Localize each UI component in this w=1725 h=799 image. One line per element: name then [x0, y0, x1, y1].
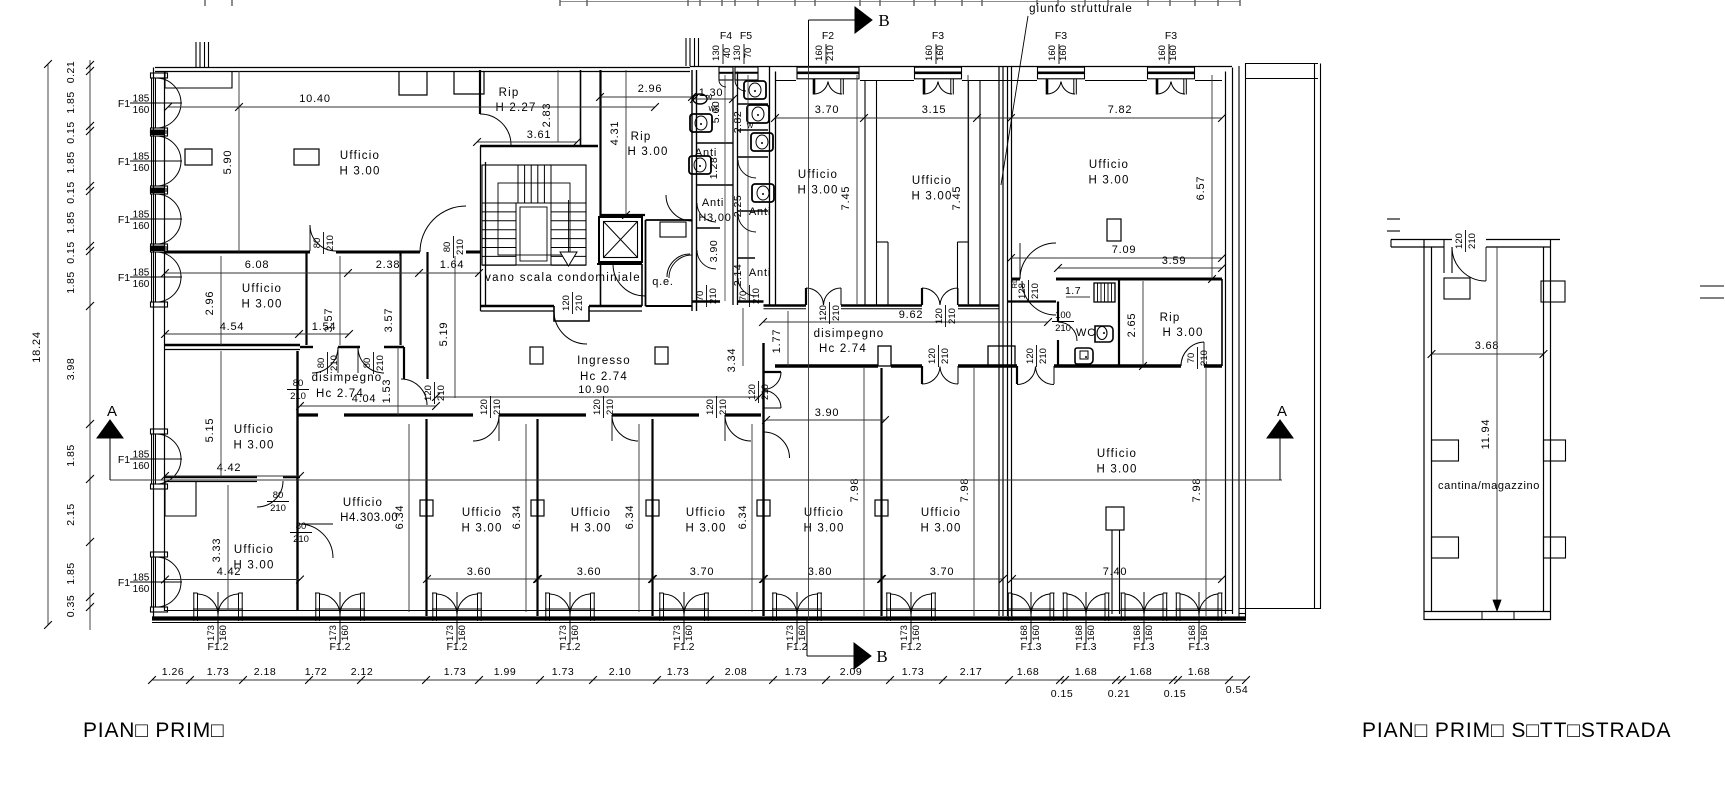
- svg-text:5.15: 5.15: [204, 418, 216, 443]
- wall anti-right partition 1: [738, 103, 768, 105]
- dim 7.98 at x=974: [973, 368, 975, 616]
- wall qe north: [646, 219, 693, 221]
- dim 3.57 a: [339, 256, 341, 345]
- svg-text:A: A: [107, 403, 117, 420]
- svg-text:H 3.00: H 3.00: [1088, 175, 1129, 187]
- svg-text:3.34: 3.34: [726, 348, 738, 373]
- wall room 1.64 right: [426, 252, 428, 345]
- svg-text:160: 160: [133, 163, 150, 174]
- svg-text:1.68: 1.68: [1130, 666, 1152, 678]
- door office 3.60 b: [612, 415, 638, 441]
- wall bottom interior face: [152, 616, 1246, 620]
- wall room7.82 bottom b: [1056, 278, 1222, 281]
- wall rip 3.00 west: [599, 70, 601, 217]
- dim 6.34 at x=752: [751, 424, 753, 612]
- pillar corridor x=988: [988, 346, 1015, 366]
- svg-text:7.45: 7.45: [840, 186, 852, 211]
- dim door 120/210: [592, 396, 616, 418]
- window F1.2 #3: [432, 593, 434, 621]
- svg-text:Anti: Anti: [749, 206, 771, 218]
- svg-text:disimpegno: disimpegno: [814, 328, 885, 340]
- svg-text:160: 160: [814, 45, 825, 61]
- svg-text:0.15: 0.15: [1051, 688, 1073, 700]
- wall corridor top a: [764, 304, 807, 307]
- svg-text:160: 160: [1144, 625, 1155, 641]
- wall anti bottom b: [738, 300, 764, 302]
- cantina wall left: [1423, 239, 1425, 620]
- window F5: [735, 67, 758, 80]
- dim 3.34: [742, 308, 744, 366]
- svg-text:H 3.00: H 3.00: [1096, 464, 1137, 476]
- door office 3.60 a: [473, 415, 499, 441]
- svg-text:160: 160: [133, 105, 150, 116]
- svg-text:Ufficio: Ufficio: [921, 507, 961, 519]
- broken edge mark left: [1387, 218, 1400, 220]
- svg-text:1.73: 1.73: [552, 666, 574, 678]
- svg-text:173: 173: [445, 625, 456, 641]
- svg-text:0.15: 0.15: [65, 181, 77, 203]
- svg-text:160: 160: [1157, 45, 1168, 61]
- svg-text:Ufficio: Ufficio: [343, 497, 383, 509]
- svg-text:160: 160: [133, 279, 150, 290]
- svg-text:F1.3: F1.3: [1188, 641, 1209, 653]
- svg-text:F2: F2: [822, 30, 834, 42]
- sink wc right: [1075, 348, 1093, 364]
- dim 7.45 a: [856, 75, 858, 305]
- door double office 3.70 lower: [921, 366, 923, 384]
- cantina pilaster right 2: [1544, 537, 1566, 558]
- wall corridor bottom c: [958, 364, 1017, 367]
- wall stair west: [480, 146, 482, 311]
- svg-text:Rip: Rip: [1160, 312, 1181, 324]
- wall under office 10.40 (right part): [466, 251, 481, 254]
- svg-text:160: 160: [1047, 45, 1058, 61]
- wall partition office1/2: [425, 419, 427, 616]
- svg-text:130: 130: [732, 45, 743, 61]
- svg-text:160: 160: [924, 45, 935, 61]
- door vano scala main: [554, 311, 587, 344]
- window F1 #2: [151, 131, 168, 136]
- section line A-A: [110, 479, 1282, 481]
- svg-text:q.e.: q.e.: [652, 276, 674, 288]
- wall between offices 5.15 and 3.33: [165, 476, 258, 478]
- dim 1.77: [787, 311, 789, 366]
- svg-text:H 2.27: H 2.27: [495, 102, 536, 114]
- pillar room 7.82: [1107, 219, 1121, 241]
- wall partition 3.70/3.15: [864, 81, 866, 305]
- wall under rip 3.00: [601, 214, 646, 216]
- window F1.2 #2: [315, 593, 317, 621]
- svg-text:H 3.00: H 3.00: [803, 523, 844, 535]
- wall corridor bottom d: [1054, 364, 1181, 367]
- door anti-right 1: [738, 160, 756, 178]
- label window F1.2 #6: [785, 625, 808, 641]
- svg-text:160: 160: [684, 625, 695, 641]
- dim door 120/210: [561, 292, 585, 314]
- svg-text:0.54: 0.54: [1226, 684, 1248, 696]
- svg-text:3.70: 3.70: [690, 566, 715, 578]
- svg-text:120: 120: [934, 308, 945, 324]
- svg-text:0.15: 0.15: [65, 121, 77, 143]
- dim 2.96 top: [600, 96, 692, 98]
- window F4: [719, 67, 733, 80]
- svg-text:2.65: 2.65: [1126, 313, 1138, 338]
- dim 1.30: [694, 98, 733, 100]
- dim 3.70 office bottom: [653, 578, 763, 580]
- svg-text:H 3.00: H 3.00: [570, 523, 611, 535]
- door office 2.96 upper: [310, 225, 336, 251]
- svg-text:B: B: [876, 647, 887, 666]
- window F1 #4: [151, 247, 168, 252]
- svg-text:5.19: 5.19: [438, 322, 450, 347]
- svg-text:120: 120: [479, 399, 490, 415]
- dim door 70/210: [1186, 347, 1210, 369]
- door double office 3.70: [805, 288, 807, 305]
- dim 2.65: [1142, 281, 1144, 366]
- svg-text:Ufficio: Ufficio: [234, 424, 274, 436]
- svg-text:Ufficio: Ufficio: [234, 544, 274, 556]
- svg-text:210: 210: [831, 305, 842, 321]
- section marker A right: [1267, 420, 1293, 438]
- svg-text:1.7: 1.7: [1065, 285, 1081, 297]
- svg-text:H3.00: H3.00: [698, 212, 731, 224]
- svg-text:10.90: 10.90: [578, 384, 610, 396]
- dim 6.34 at x=639: [638, 424, 640, 612]
- wall neighbour right: [1314, 64, 1316, 610]
- window F1 #3: [151, 189, 168, 194]
- svg-text:210: 210: [718, 399, 729, 415]
- wall corridor top c: [958, 304, 999, 307]
- door wc lobby: [1022, 281, 1056, 315]
- svg-text:7.98: 7.98: [849, 478, 861, 503]
- svg-text:4.31: 4.31: [609, 121, 621, 146]
- dim door 80/210: [316, 352, 340, 374]
- svg-text:cantina/magazzino: cantina/magazzino: [1438, 480, 1540, 492]
- svg-text:2.12: 2.12: [351, 666, 373, 678]
- cantina wall top right: [1486, 239, 1560, 241]
- door double office 3.15: [921, 288, 923, 305]
- wall anti-right partition 4: [738, 210, 768, 212]
- dim door 120/210: [934, 305, 958, 327]
- pillar on corridor bottom wall: [878, 346, 891, 366]
- wall disimpegno-left top a: [300, 346, 313, 348]
- dim 3.61: [477, 141, 577, 143]
- svg-text:F1: F1: [118, 272, 130, 284]
- wall anti bottom a: [692, 300, 720, 302]
- svg-text:120: 120: [818, 305, 829, 321]
- wall left of office 3.70 x=775: [775, 72, 777, 306]
- chimney stub mid: [685, 38, 687, 66]
- svg-text:F5: F5: [740, 30, 752, 42]
- dim 3.68: [1432, 353, 1544, 355]
- dim 2.83: [557, 70, 559, 142]
- dim 3.80 office bottom: [764, 578, 881, 580]
- wall room7.82 bottom a: [1012, 278, 1021, 281]
- jog top-left corner: [165, 72, 232, 89]
- svg-text:160: 160: [1199, 625, 1210, 641]
- svg-text:3.57: 3.57: [383, 308, 395, 333]
- svg-text:3.15: 3.15: [922, 104, 947, 116]
- svg-text:160: 160: [570, 625, 581, 641]
- dim line anti-left: [724, 75, 726, 301]
- svg-text:18.24: 18.24: [31, 331, 43, 363]
- svg-text:210: 210: [1055, 323, 1071, 334]
- svg-text:210: 210: [574, 295, 585, 311]
- wall anti-left partition 1: [697, 142, 733, 144]
- cantina wall right: [1543, 247, 1545, 611]
- svg-text:2.83: 2.83: [541, 103, 553, 128]
- svg-text:F1.2: F1.2: [207, 641, 228, 653]
- wall qe south: [646, 305, 693, 307]
- svg-text:w: w: [746, 120, 754, 130]
- dim 3.70/3.15/7.82: [775, 117, 1222, 119]
- pilaster partition 1: [420, 500, 433, 516]
- svg-text:160: 160: [1058, 45, 1069, 61]
- svg-text:2.09: 2.09: [840, 666, 862, 678]
- door room 1.64: [420, 206, 466, 252]
- svg-text:80: 80: [312, 238, 323, 249]
- svg-text:1.85: 1.85: [65, 444, 77, 466]
- svg-text:Ufficio: Ufficio: [1097, 448, 1137, 460]
- svg-text:1.54: 1.54: [312, 321, 337, 333]
- svg-text:173: 173: [558, 625, 569, 641]
- door anti-right 2: [738, 214, 756, 232]
- svg-text:3.61: 3.61: [527, 129, 552, 141]
- wall disimpegno-left top b: [338, 346, 360, 348]
- dim 4.42 a: [165, 475, 300, 477]
- dim 6.34 at x=526: [525, 424, 527, 612]
- svg-text:7.45: 7.45: [951, 186, 963, 211]
- svg-text:1.77: 1.77: [771, 329, 783, 354]
- svg-text:70: 70: [738, 291, 749, 302]
- window F1 #5: [151, 429, 168, 434]
- svg-text:Ufficio: Ufficio: [798, 169, 838, 181]
- niche 2 below top wall: [454, 72, 484, 95]
- svg-text:2.10: 2.10: [609, 666, 631, 678]
- svg-text:3.80: 3.80: [808, 566, 833, 578]
- dim chain left: [89, 60, 91, 630]
- wall jog disimpegno-left: [403, 347, 405, 379]
- svg-text:210: 210: [1030, 283, 1041, 299]
- dim 3.90 office: [766, 419, 885, 421]
- svg-text:70: 70: [695, 291, 706, 302]
- section line B-B: [808, 66, 810, 619]
- svg-text:160: 160: [133, 584, 150, 595]
- wall jog office 3.33: [165, 482, 196, 517]
- svg-text:173: 173: [899, 625, 910, 641]
- svg-text:F3: F3: [932, 30, 944, 42]
- svg-text:0.15: 0.15: [65, 241, 77, 263]
- svg-text:80: 80: [362, 358, 373, 369]
- door anti-right 3: [738, 278, 756, 296]
- wall wc lobby: [1007, 300, 1056, 302]
- pilaster partition 3: [646, 500, 659, 516]
- label window F1.3 #4: [1187, 625, 1210, 641]
- svg-text:F1: F1: [118, 156, 130, 168]
- svg-text:80: 80: [442, 242, 453, 253]
- door anti access: [669, 255, 692, 278]
- svg-text:4.04: 4.04: [352, 393, 377, 405]
- section marker B top: [808, 20, 810, 66]
- svg-text:210: 210: [270, 503, 286, 514]
- svg-text:210: 210: [375, 355, 386, 371]
- svg-text:disimpegno: disimpegno: [312, 372, 383, 384]
- svg-text:1.85: 1.85: [65, 211, 77, 233]
- dim door 70/210: [738, 285, 762, 307]
- door rip right: [1181, 342, 1204, 366]
- svg-text:173: 173: [785, 625, 796, 641]
- door rip 2.27: [480, 114, 511, 145]
- radiator heater wc: [1094, 283, 1115, 302]
- svg-text:6.08: 6.08: [245, 259, 270, 271]
- wall offices row top d: [612, 413, 699, 416]
- door offices 5.15/3.33: [257, 481, 283, 507]
- cantina bottom hatch: [1482, 612, 1514, 620]
- svg-text:F1: F1: [118, 577, 130, 589]
- svg-text:5.90: 5.90: [222, 150, 234, 175]
- svg-text:H 3.00: H 3.00: [233, 440, 274, 452]
- dim cantina door 120/210: [1454, 230, 1478, 252]
- svg-text:PIAN□ PRIM□ S□TT□STRADA: PIAN□ PRIM□ S□TT□STRADA: [1362, 719, 1671, 742]
- wall elevator south: [597, 263, 642, 265]
- svg-text:160: 160: [218, 625, 229, 641]
- svg-text:0.35: 0.35: [65, 595, 77, 617]
- svg-text:210: 210: [329, 355, 340, 371]
- label window F1.2 #7: [899, 625, 922, 641]
- dim 11.94: [1496, 247, 1498, 611]
- dim door 128/210: [1017, 280, 1041, 302]
- label window F1.2 #1: [206, 625, 229, 641]
- svg-text:2.96: 2.96: [638, 83, 663, 95]
- svg-text:120: 120: [705, 399, 716, 415]
- pilaster partition 2: [531, 500, 544, 516]
- wall anti strip east x=770: [769, 66, 771, 305]
- dim 7.40 office bottom: [1012, 578, 1222, 580]
- svg-text:3.59: 3.59: [1162, 255, 1187, 267]
- svg-text:120: 120: [1025, 348, 1036, 364]
- svg-text:giunto strutturale: giunto strutturale: [1029, 3, 1133, 15]
- svg-text:Anti: Anti: [702, 197, 724, 209]
- svg-text:1.99: 1.99: [494, 666, 516, 678]
- wall top exterior left: [155, 67, 690, 69]
- toilet anti-right 3: [751, 133, 773, 151]
- window F1 #1: [151, 73, 168, 78]
- wall under office 10.40 (left part): [165, 251, 311, 254]
- cantina pilaster right 1: [1544, 440, 1566, 461]
- svg-text:3.90: 3.90: [815, 407, 840, 419]
- window F1.2 #1: [193, 593, 195, 621]
- wall partition office2/3: [536, 419, 538, 616]
- toilet anti-right 4: [752, 184, 774, 202]
- svg-text:210: 210: [708, 288, 719, 304]
- svg-text:1.73: 1.73: [902, 666, 924, 678]
- dim door 120/210: [479, 396, 503, 418]
- svg-text:80: 80: [293, 378, 304, 389]
- toilet anti-right 2: [747, 105, 769, 123]
- svg-text:Ufficio: Ufficio: [571, 507, 611, 519]
- svg-text:0.15: 0.15: [1164, 688, 1186, 700]
- door rip 3.00: [666, 195, 692, 221]
- svg-text:173: 173: [672, 625, 683, 641]
- svg-text:F1: F1: [118, 214, 130, 226]
- svg-text:120: 120: [1454, 233, 1465, 249]
- wall stair north / rip227 south: [480, 145, 598, 148]
- svg-text:168: 168: [1019, 625, 1030, 641]
- pillar ingresso A: [530, 347, 543, 364]
- wall right exterior: [1225, 72, 1227, 615]
- dim 5.19: [454, 256, 456, 398]
- svg-text:7.40: 7.40: [1103, 566, 1128, 578]
- svg-text:120: 120: [423, 385, 434, 401]
- svg-text:1.73: 1.73: [667, 666, 689, 678]
- window F2: [797, 67, 859, 79]
- svg-text:PIAN□ PRIM□: PIAN□ PRIM□: [83, 719, 225, 742]
- door office 3.70 c: [725, 415, 751, 441]
- wall anti-right partition 5: [738, 257, 755, 259]
- svg-text:2.96: 2.96: [204, 291, 216, 316]
- svg-text:3.70: 3.70: [930, 566, 955, 578]
- dim door 120/210: [423, 382, 447, 404]
- wall structural joint inner A: [998, 66, 1000, 616]
- svg-text:9.62: 9.62: [899, 309, 924, 321]
- cantina entry door: [1452, 247, 1486, 281]
- svg-text:1.73: 1.73: [444, 666, 466, 678]
- svg-text:185: 185: [133, 573, 150, 584]
- svg-text:H 3.00: H 3.00: [797, 185, 838, 197]
- window F1.3 #2: [1062, 593, 1064, 621]
- wall anti strip west x=694: [691, 70, 693, 311]
- svg-text:2.14: 2.14: [732, 264, 744, 286]
- wall corridor bottom a: [775, 364, 878, 367]
- svg-text:1.85: 1.85: [65, 91, 77, 113]
- svg-text:Hc 2.74: Hc 2.74: [580, 371, 628, 383]
- svg-text:11.94: 11.94: [1480, 419, 1492, 450]
- svg-text:F1.2: F1.2: [446, 641, 467, 653]
- pillar duct office 7.40: [1106, 507, 1124, 530]
- window F3 #1: [915, 67, 962, 79]
- window F1.3 #3: [1120, 593, 1122, 621]
- wall room 2.38 right: [399, 252, 401, 345]
- door double office 7.40: [1016, 366, 1018, 384]
- svg-text:1.68: 1.68: [1017, 666, 1039, 678]
- svg-text:Ufficio: Ufficio: [462, 507, 502, 519]
- section marker B bottom: [806, 619, 808, 656]
- wall disimpegno-left top c: [384, 346, 404, 348]
- svg-text:1.72: 1.72: [305, 666, 327, 678]
- dim 3.33: [227, 485, 229, 611]
- dim door 80/210: [442, 236, 466, 258]
- wall wc left upper: [1057, 302, 1059, 323]
- svg-text:F1: F1: [118, 98, 130, 110]
- svg-text:6.57: 6.57: [1195, 176, 1207, 201]
- wall partition 3.15/joint: [968, 81, 970, 305]
- svg-text:F4: F4: [720, 30, 732, 42]
- door anti-left 2: [697, 250, 716, 269]
- svg-text:F1.2: F1.2: [900, 641, 921, 653]
- toilet wc right: [1095, 326, 1113, 342]
- wall wc/rip separator: [1118, 279, 1120, 366]
- dim 3.57 b: [399, 256, 401, 345]
- svg-text:F1.3: F1.3: [1133, 641, 1154, 653]
- dim door 120/210: [705, 396, 729, 418]
- svg-text:210: 210: [290, 391, 306, 402]
- dim 6.57: [1211, 75, 1213, 279]
- dim 7.98 at x=1206: [1205, 368, 1207, 616]
- svg-text:Ufficio: Ufficio: [1089, 159, 1129, 171]
- svg-text:H 3.00: H 3.00: [461, 523, 502, 535]
- wall neighbour bottom: [1239, 608, 1320, 610]
- pilaster partition 5: [875, 500, 888, 516]
